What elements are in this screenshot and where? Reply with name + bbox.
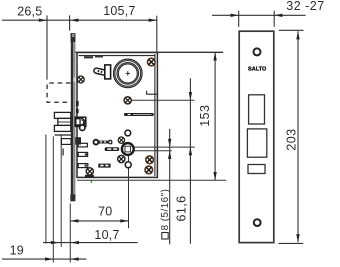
svg-text:SALTO: SALTO — [248, 67, 266, 73]
svg-text:105,7: 105,7 — [103, 4, 135, 18]
svg-text:32 -27: 32 -27 — [286, 0, 324, 13]
svg-text:8 (5/16"): 8 (5/16") — [160, 189, 171, 231]
svg-text:26,5: 26,5 — [17, 4, 42, 18]
svg-text:10,7: 10,7 — [94, 228, 119, 242]
svg-text:61,6: 61,6 — [175, 196, 189, 222]
svg-text:203: 203 — [284, 129, 298, 151]
svg-text:19: 19 — [10, 243, 24, 257]
svg-text:70: 70 — [98, 204, 112, 218]
svg-text:153: 153 — [198, 105, 212, 127]
